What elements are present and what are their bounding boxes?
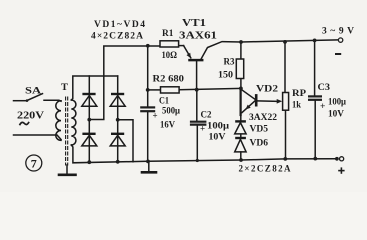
svg-text:C3: C3 bbox=[318, 83, 331, 93]
svg-text:RP: RP bbox=[292, 89, 306, 99]
svg-text:VD2: VD2 bbox=[256, 85, 278, 95]
svg-text:R2 680: R2 680 bbox=[153, 75, 185, 85]
svg-text:VT1: VT1 bbox=[182, 18, 206, 29]
svg-text:VD5: VD5 bbox=[250, 125, 269, 135]
svg-text:150: 150 bbox=[218, 71, 233, 81]
svg-text:16V: 16V bbox=[160, 121, 175, 131]
svg-text:1k: 1k bbox=[292, 101, 302, 111]
svg-text:VD6: VD6 bbox=[250, 139, 269, 149]
svg-text:10V: 10V bbox=[328, 110, 344, 120]
svg-text:T: T bbox=[61, 83, 69, 93]
svg-text:4×2CZ82A: 4×2CZ82A bbox=[91, 32, 143, 42]
svg-text:3AX22: 3AX22 bbox=[249, 113, 277, 123]
svg-text:500μ: 500μ bbox=[162, 106, 180, 116]
svg-text:VD1~VD4: VD1~VD4 bbox=[94, 20, 145, 30]
svg-text:100μ: 100μ bbox=[207, 121, 229, 131]
svg-text:7: 7 bbox=[31, 157, 37, 171]
svg-text:10V: 10V bbox=[209, 133, 226, 143]
svg-text:220V: 220V bbox=[17, 111, 44, 122]
svg-text:R1: R1 bbox=[162, 28, 174, 38]
svg-text:R3: R3 bbox=[224, 58, 235, 68]
svg-text:2×2CZ82A: 2×2CZ82A bbox=[239, 164, 292, 174]
svg-text:+: + bbox=[200, 124, 205, 134]
svg-text:+: + bbox=[153, 111, 158, 121]
svg-text:+: + bbox=[320, 102, 325, 112]
svg-text:100μ: 100μ bbox=[328, 97, 346, 107]
svg-text:SA: SA bbox=[25, 87, 41, 97]
svg-text:C2: C2 bbox=[201, 111, 212, 121]
svg-text:3AX61: 3AX61 bbox=[179, 31, 217, 42]
svg-text:10Ω: 10Ω bbox=[162, 51, 178, 61]
